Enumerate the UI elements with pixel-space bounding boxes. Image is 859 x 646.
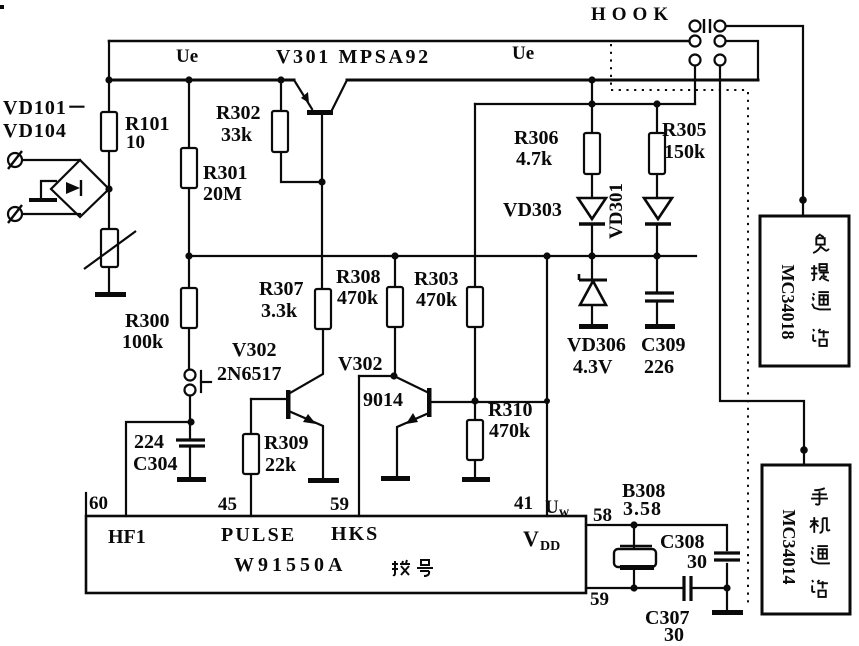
svg-text:C309: C309 xyxy=(641,334,685,356)
svg-text:V302: V302 xyxy=(232,339,276,361)
svg-text:V: V xyxy=(523,526,539,551)
svg-text:3.3k: 3.3k xyxy=(261,300,298,322)
svg-text:R302: R302 xyxy=(216,102,260,124)
svg-text:w: w xyxy=(559,505,570,520)
svg-text:VD301: VD301 xyxy=(606,183,627,239)
svg-text:45: 45 xyxy=(218,494,237,515)
svg-text:150k: 150k xyxy=(664,141,706,163)
svg-text:U: U xyxy=(545,497,559,518)
svg-text:58: 58 xyxy=(593,505,612,526)
svg-text:V301 MPSA92: V301 MPSA92 xyxy=(276,46,431,68)
svg-text:Ue: Ue xyxy=(512,43,534,64)
svg-text:30: 30 xyxy=(664,624,684,646)
svg-text:MC34014: MC34014 xyxy=(779,510,799,585)
svg-text:PULSE: PULSE xyxy=(221,524,296,546)
svg-text:VD303: VD303 xyxy=(503,199,562,221)
svg-text:20M: 20M xyxy=(203,183,242,205)
svg-text:HF1: HF1 xyxy=(108,526,146,548)
svg-text:VD104: VD104 xyxy=(3,120,67,142)
svg-text:3.58: 3.58 xyxy=(623,498,662,520)
svg-text:470k: 470k xyxy=(489,420,531,442)
svg-text:224: 224 xyxy=(134,431,164,453)
svg-text:470k: 470k xyxy=(416,289,458,311)
svg-text:59: 59 xyxy=(330,494,349,515)
svg-text:DD: DD xyxy=(540,539,560,554)
svg-text:R306: R306 xyxy=(514,127,558,149)
svg-text:9014: 9014 xyxy=(363,389,403,411)
svg-text:V302: V302 xyxy=(338,353,382,375)
svg-text:R300: R300 xyxy=(125,310,169,332)
svg-text:R309: R309 xyxy=(264,432,308,454)
svg-text:4.7k: 4.7k xyxy=(516,148,553,170)
svg-text:Ue: Ue xyxy=(176,46,198,67)
svg-text:100k: 100k xyxy=(122,331,164,353)
svg-text:C308: C308 xyxy=(660,531,704,553)
svg-text:C304: C304 xyxy=(133,453,177,475)
svg-text:22k: 22k xyxy=(265,454,297,476)
svg-text:470k: 470k xyxy=(337,287,379,309)
svg-text:10: 10 xyxy=(126,132,145,153)
svg-text:VD306: VD306 xyxy=(567,334,626,356)
svg-text:HOOK: HOOK xyxy=(591,4,674,25)
svg-text:33k: 33k xyxy=(221,124,253,146)
svg-text:59: 59 xyxy=(590,589,609,610)
svg-text:226: 226 xyxy=(644,356,674,378)
svg-text:VD101－: VD101－ xyxy=(3,97,88,119)
svg-text:4.3V: 4.3V xyxy=(573,356,613,378)
svg-text:MC34018: MC34018 xyxy=(778,265,798,340)
svg-text:R308: R308 xyxy=(336,266,380,288)
svg-text:41: 41 xyxy=(514,493,533,514)
svg-text:R305: R305 xyxy=(662,119,706,141)
svg-text:R310: R310 xyxy=(488,399,532,421)
svg-text:R301: R301 xyxy=(203,162,247,184)
svg-text:R303: R303 xyxy=(414,268,458,290)
svg-text:2N6517: 2N6517 xyxy=(217,363,281,385)
svg-text:60: 60 xyxy=(89,493,108,514)
svg-text:HKS: HKS xyxy=(331,523,379,545)
svg-text:30: 30 xyxy=(687,551,707,573)
svg-text:W91550A: W91550A xyxy=(234,554,346,576)
svg-text:R307: R307 xyxy=(259,278,303,300)
